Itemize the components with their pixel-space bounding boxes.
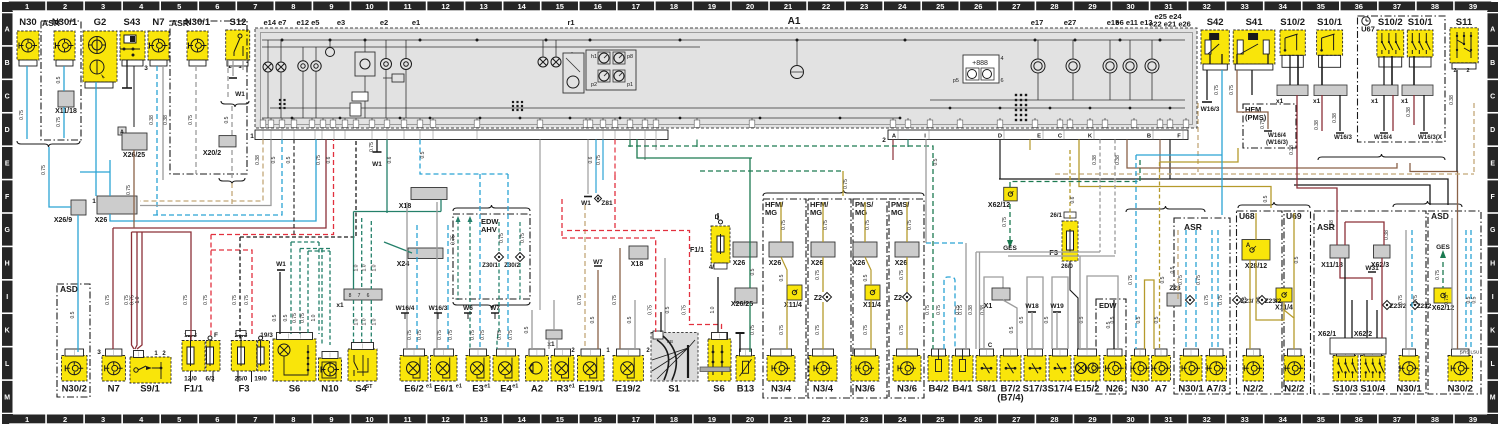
svg-text:MG: MG xyxy=(810,208,822,217)
svg-text:5: 5 xyxy=(177,2,181,11)
svg-text:X20/2: X20/2 xyxy=(203,150,221,157)
svg-text:0.75: 0.75 xyxy=(437,330,443,340)
svg-text:X11/18: X11/18 xyxy=(55,108,77,115)
svg-text:36: 36 xyxy=(1355,415,1363,424)
svg-text:0.75: 0.75 xyxy=(369,142,375,152)
svg-text:W16/4: W16/4 xyxy=(1268,132,1286,139)
svg-text:0.5: 0.5 xyxy=(524,326,530,333)
svg-text:e2: e2 xyxy=(380,18,388,27)
svg-text:1: 1 xyxy=(25,415,29,424)
svg-text:Z2: Z2 xyxy=(894,295,902,302)
svg-text:I: I xyxy=(6,294,8,301)
svg-text:10: 10 xyxy=(365,2,373,11)
svg-text:23: 23 xyxy=(860,2,868,11)
svg-text:S10/2: S10/2 xyxy=(1280,17,1305,28)
svg-text:0.75: 0.75 xyxy=(1214,85,1220,95)
svg-text:Z30/2: Z30/2 xyxy=(504,262,520,269)
svg-text:6: 6 xyxy=(215,415,219,424)
svg-text:0.5: 0.5 xyxy=(283,314,289,321)
svg-text:3: 3 xyxy=(144,65,148,72)
svg-text:18: 18 xyxy=(670,415,678,424)
svg-text:16: 16 xyxy=(594,2,602,11)
svg-text:B: B xyxy=(5,60,10,67)
svg-text:F: F xyxy=(5,194,10,201)
svg-text:15: 15 xyxy=(556,415,564,424)
svg-text:39: 39 xyxy=(1469,2,1477,11)
svg-text:C: C xyxy=(988,343,993,349)
svg-text:29: 29 xyxy=(1088,415,1096,424)
svg-text:K: K xyxy=(5,327,10,334)
svg-text:F: F xyxy=(214,332,218,339)
svg-text:0.6: 0.6 xyxy=(1070,196,1076,203)
svg-text:0.75: 0.75 xyxy=(451,235,457,245)
svg-text:7: 7 xyxy=(253,2,257,11)
svg-text:M: M xyxy=(1490,394,1496,401)
svg-text:0.75: 0.75 xyxy=(899,325,905,335)
svg-text:1.0: 1.0 xyxy=(135,296,141,303)
svg-text:1.0: 1.0 xyxy=(371,318,377,325)
svg-text:0.75: 0.75 xyxy=(300,313,306,323)
svg-text:0.6: 0.6 xyxy=(387,156,393,163)
svg-text:21: 21 xyxy=(784,415,792,424)
svg-text:29: 29 xyxy=(1088,2,1096,11)
svg-text:S6: S6 xyxy=(713,384,725,395)
svg-text:Z23: Z23 xyxy=(1169,285,1181,292)
svg-text:R3: R3 xyxy=(556,384,568,395)
svg-text:N2/2: N2/2 xyxy=(1243,384,1263,395)
svg-text:e1: e1 xyxy=(484,384,490,390)
svg-text:W16/3: W16/3 xyxy=(429,305,448,312)
svg-text:1.0: 1.0 xyxy=(710,306,716,313)
svg-text:12: 12 xyxy=(441,415,449,424)
svg-text:34: 34 xyxy=(1279,2,1288,11)
svg-text:0.5: 0.5 xyxy=(627,316,633,323)
svg-text:2: 2 xyxy=(1453,68,1456,74)
svg-text:X18: X18 xyxy=(631,261,644,268)
svg-text:MG: MG xyxy=(891,208,903,217)
svg-text:N30/1: N30/1 xyxy=(1396,384,1422,395)
svg-text:ASR: ASR xyxy=(1184,222,1202,232)
svg-text:G: G xyxy=(4,227,10,234)
svg-text:2: 2 xyxy=(882,137,886,144)
svg-text:A2: A2 xyxy=(531,384,543,395)
svg-text:S17/3: S17/3 xyxy=(1023,384,1048,395)
svg-text:0.75: 0.75 xyxy=(1260,119,1266,129)
svg-text:S12: S12 xyxy=(230,17,247,28)
svg-text:0.75: 0.75 xyxy=(863,325,869,335)
svg-text:32: 32 xyxy=(1202,2,1210,11)
svg-text:W16/4: W16/4 xyxy=(1374,134,1392,141)
svg-text:(B7/4): (B7/4) xyxy=(997,393,1023,404)
svg-text:25: 25 xyxy=(936,2,944,11)
svg-text:W1: W1 xyxy=(581,200,591,207)
svg-text:W16/3: W16/3 xyxy=(1334,134,1352,141)
svg-text:0.75: 0.75 xyxy=(682,305,688,315)
svg-text:MG: MG xyxy=(765,208,777,217)
svg-text:0.75: 0.75 xyxy=(1204,295,1210,305)
svg-text:r1: r1 xyxy=(567,18,574,27)
svg-text:B: B xyxy=(1490,60,1495,67)
svg-text:F: F xyxy=(1491,194,1496,201)
svg-text:1: 1 xyxy=(92,198,96,205)
svg-text:0.75: 0.75 xyxy=(1002,217,1008,227)
svg-text:X26: X26 xyxy=(895,260,908,267)
svg-text:0.5: 0.5 xyxy=(420,151,426,158)
svg-text:N26: N26 xyxy=(1106,384,1123,395)
svg-text:U67: U67 xyxy=(1361,25,1375,34)
svg-text:EDW: EDW xyxy=(1099,301,1117,310)
svg-text:S43: S43 xyxy=(124,17,141,28)
svg-text:h1: h1 xyxy=(591,54,597,60)
svg-text:A1: A1 xyxy=(788,16,801,27)
svg-text:30: 30 xyxy=(1126,415,1134,424)
svg-text:K: K xyxy=(1490,327,1495,334)
svg-text:0.5: 0.5 xyxy=(1160,276,1166,283)
svg-text:25/0: 25/0 xyxy=(235,376,248,383)
svg-text:0.38: 0.38 xyxy=(1092,155,1098,165)
svg-text:13: 13 xyxy=(479,415,487,424)
svg-text:21: 21 xyxy=(784,2,792,11)
svg-text:20: 20 xyxy=(746,415,754,424)
svg-text:e1: e1 xyxy=(512,384,518,390)
svg-text:e17: e17 xyxy=(1031,18,1044,27)
svg-text:e6 e11 e13: e6 e11 e13 xyxy=(1115,18,1152,27)
svg-text:0.38: 0.38 xyxy=(968,305,974,315)
svg-text:M: M xyxy=(4,394,10,401)
svg-text:S8/1: S8/1 xyxy=(977,384,997,395)
svg-text:N3/4: N3/4 xyxy=(771,384,792,395)
svg-text:N7: N7 xyxy=(152,17,164,28)
svg-text:ASR: ASR xyxy=(42,18,60,28)
svg-text:23: 23 xyxy=(860,415,868,424)
svg-text:e1: e1 xyxy=(456,384,462,390)
svg-text:0.75: 0.75 xyxy=(1413,295,1419,305)
svg-text:31: 31 xyxy=(1164,415,1172,424)
svg-text:B: B xyxy=(1147,134,1151,140)
svg-text:L: L xyxy=(5,361,10,368)
svg-text:H: H xyxy=(1490,261,1495,268)
svg-text:N30/2: N30/2 xyxy=(62,384,87,395)
svg-text:0.75: 0.75 xyxy=(56,117,62,127)
svg-text:E19/1: E19/1 xyxy=(578,384,604,395)
svg-text:0.5: 0.5 xyxy=(286,156,292,163)
svg-text:E4: E4 xyxy=(500,384,512,395)
svg-text:0.5: 0.5 xyxy=(1170,266,1176,273)
svg-text:19: 19 xyxy=(708,2,716,11)
svg-text:0.75: 0.75 xyxy=(925,305,931,315)
svg-text:39: 39 xyxy=(1469,415,1477,424)
svg-text:38: 38 xyxy=(1431,415,1439,424)
svg-text:0.75: 0.75 xyxy=(1435,270,1441,280)
svg-text:1.0: 1.0 xyxy=(311,314,317,321)
svg-text:0.75: 0.75 xyxy=(1218,295,1224,305)
svg-text:W7: W7 xyxy=(490,305,500,312)
svg-text:+888: +888 xyxy=(972,60,988,67)
svg-text:31: 31 xyxy=(1164,2,1172,11)
svg-text:W1: W1 xyxy=(235,91,245,98)
svg-text:0.5: 0.5 xyxy=(272,314,278,321)
svg-text:S11: S11 xyxy=(1456,17,1473,28)
svg-text:9: 9 xyxy=(329,2,333,11)
svg-text:X62/12: X62/12 xyxy=(1432,305,1454,312)
svg-text:S1: S1 xyxy=(668,384,680,395)
svg-text:L: L xyxy=(1491,361,1496,368)
svg-text:S10/1: S10/1 xyxy=(1408,17,1434,28)
svg-text:W19: W19 xyxy=(1050,303,1064,310)
svg-text:0.5: 0.5 xyxy=(1242,296,1248,303)
svg-text:A: A xyxy=(5,27,10,34)
svg-text:0.5: 0.5 xyxy=(1136,316,1142,323)
svg-text:S41: S41 xyxy=(1246,17,1264,28)
svg-text:B13: B13 xyxy=(737,384,754,395)
svg-text:0.38: 0.38 xyxy=(255,155,261,165)
svg-text:38: 38 xyxy=(1431,2,1439,11)
svg-text:F: F xyxy=(1177,134,1181,140)
svg-text:6: 6 xyxy=(1000,78,1003,84)
svg-text:E: E xyxy=(1037,134,1041,140)
svg-text:3: 3 xyxy=(97,349,101,356)
svg-text:e22 e21 e26: e22 e21 e26 xyxy=(1149,20,1191,29)
svg-text:0.75: 0.75 xyxy=(899,270,905,280)
svg-text:E6/1: E6/1 xyxy=(434,384,454,395)
svg-text:0.75: 0.75 xyxy=(183,295,189,305)
svg-text:3: 3 xyxy=(101,415,105,424)
svg-text:0.5: 0.5 xyxy=(56,76,62,83)
svg-text:X62/1: X62/1 xyxy=(1318,331,1336,338)
svg-text:7: 7 xyxy=(253,415,257,424)
svg-text:26: 26 xyxy=(974,415,982,424)
svg-text:15: 15 xyxy=(556,2,564,11)
svg-text:17: 17 xyxy=(632,2,640,11)
svg-text:1: 1 xyxy=(25,2,29,11)
svg-text:W16/3: W16/3 xyxy=(1201,106,1220,113)
svg-text:W1: W1 xyxy=(372,161,382,168)
svg-text:B4/1: B4/1 xyxy=(952,384,973,395)
svg-text:27: 27 xyxy=(1012,2,1020,11)
svg-text:0.5: 0.5 xyxy=(779,274,785,281)
svg-text:0.38: 0.38 xyxy=(1449,95,1455,105)
svg-text:0.75: 0.75 xyxy=(781,220,787,230)
svg-text:W6: W6 xyxy=(463,305,473,312)
svg-text:X26/9: X26/9 xyxy=(54,217,72,224)
svg-text:36: 36 xyxy=(1355,2,1363,11)
svg-text:1.0: 1.0 xyxy=(354,318,360,325)
svg-text:27: 27 xyxy=(1012,415,1020,424)
svg-text:0.75: 0.75 xyxy=(1398,295,1404,305)
svg-text:0.5: 0.5 xyxy=(933,158,939,165)
svg-text:0.75: 0.75 xyxy=(1178,275,1184,285)
svg-text:Z2: Z2 xyxy=(814,295,822,302)
svg-text:N30/1: N30/1 xyxy=(1178,384,1204,395)
svg-text:e1: e1 xyxy=(412,18,420,27)
svg-text:E6/2: E6/2 xyxy=(404,384,424,395)
svg-text:E: E xyxy=(1490,160,1495,167)
svg-text:0.75: 0.75 xyxy=(41,165,47,175)
svg-text:18: 18 xyxy=(670,2,678,11)
svg-text:0.75: 0.75 xyxy=(480,330,486,340)
svg-text:22: 22 xyxy=(822,415,830,424)
svg-text:0.5: 0.5 xyxy=(1256,296,1262,303)
svg-text:33: 33 xyxy=(1240,415,1248,424)
svg-text:E: E xyxy=(5,160,10,167)
svg-text:ASR: ASR xyxy=(171,18,189,28)
svg-text:0.75: 0.75 xyxy=(292,313,298,323)
svg-text:0.6: 0.6 xyxy=(326,156,332,163)
svg-text:8: 8 xyxy=(291,2,295,11)
svg-text:1.0: 1.0 xyxy=(371,264,377,271)
svg-text:26/0: 26/0 xyxy=(1061,264,1073,270)
svg-text:X26: X26 xyxy=(733,260,746,267)
svg-text:N3/6: N3/6 xyxy=(897,384,917,395)
svg-text:e1: e1 xyxy=(569,384,575,390)
svg-text:2: 2 xyxy=(63,415,67,424)
svg-text:0.75: 0.75 xyxy=(417,330,423,340)
svg-text:0.75: 0.75 xyxy=(232,295,238,305)
svg-text:37: 37 xyxy=(1393,415,1401,424)
svg-text:0.75: 0.75 xyxy=(1444,295,1450,305)
svg-text:0.5: 0.5 xyxy=(863,274,869,281)
svg-text:e12 e5: e12 e5 xyxy=(297,18,320,27)
svg-text:W16/4: W16/4 xyxy=(396,305,415,312)
svg-text:28: 28 xyxy=(1050,2,1058,11)
svg-text:0.5: 0.5 xyxy=(224,116,230,123)
svg-text:0.5: 0.5 xyxy=(1044,316,1050,323)
svg-text:6: 6 xyxy=(215,2,219,11)
svg-text:Z81: Z81 xyxy=(601,200,613,207)
svg-text:35: 35 xyxy=(1317,415,1325,424)
svg-text:0.75: 0.75 xyxy=(907,220,913,230)
svg-text:0.75: 0.75 xyxy=(577,295,583,305)
svg-text:H: H xyxy=(5,261,10,268)
svg-text:1: 1 xyxy=(250,133,254,140)
svg-text:p5: p5 xyxy=(953,78,959,84)
svg-text:0.5: 0.5 xyxy=(665,306,671,313)
svg-text:0.75: 0.75 xyxy=(815,270,821,280)
svg-text:p1: p1 xyxy=(627,82,633,88)
svg-text:S10/2: S10/2 xyxy=(1378,17,1403,28)
svg-text:0.75: 0.75 xyxy=(936,305,942,315)
svg-text:F3: F3 xyxy=(238,384,249,395)
svg-text:24: 24 xyxy=(898,415,907,424)
svg-text:22: 22 xyxy=(822,2,830,11)
svg-text:33: 33 xyxy=(1240,2,1248,11)
svg-text:D: D xyxy=(5,127,10,134)
svg-text:0.75: 0.75 xyxy=(815,325,821,335)
svg-text:W1: W1 xyxy=(276,261,286,268)
svg-text:0.75: 0.75 xyxy=(520,233,526,243)
svg-text:0.75: 0.75 xyxy=(750,325,756,335)
svg-text:X11/4: X11/4 xyxy=(863,302,881,309)
svg-text:0.5: 0.5 xyxy=(271,156,277,163)
svg-text:G2: G2 xyxy=(94,17,107,28)
svg-text:6: 6 xyxy=(367,293,370,299)
svg-text:GES: GES xyxy=(1436,244,1450,251)
svg-text:2: 2 xyxy=(63,2,67,11)
svg-text:Z30/1: Z30/1 xyxy=(482,262,498,269)
svg-text:0.75: 0.75 xyxy=(1229,85,1235,95)
svg-text:13: 13 xyxy=(479,2,487,11)
svg-text:0.5: 0.5 xyxy=(1472,296,1478,303)
svg-text:0.75: 0.75 xyxy=(126,185,132,195)
svg-text:D: D xyxy=(715,214,720,221)
svg-text:19: 19 xyxy=(708,415,716,424)
svg-text:0.75: 0.75 xyxy=(843,179,849,189)
svg-text:0.75: 0.75 xyxy=(779,325,785,335)
svg-text:C: C xyxy=(5,94,10,101)
svg-text:A: A xyxy=(1246,243,1251,249)
svg-text:0.5: 0.5 xyxy=(750,268,756,275)
svg-text:SRS LSU: SRS LSU xyxy=(1460,350,1479,355)
svg-text:0.38: 0.38 xyxy=(1329,220,1335,230)
svg-text:AHV: AHV xyxy=(481,225,497,234)
svg-text:0.75: 0.75 xyxy=(1196,275,1202,285)
svg-text:E3: E3 xyxy=(472,384,484,395)
svg-text:0.75: 0.75 xyxy=(823,220,829,230)
svg-text:p2: p2 xyxy=(591,82,597,88)
svg-text:0.38: 0.38 xyxy=(1384,230,1390,240)
svg-text:14: 14 xyxy=(518,415,527,424)
svg-text:11: 11 xyxy=(404,415,412,424)
svg-text:E19/2: E19/2 xyxy=(616,384,641,395)
svg-text:A: A xyxy=(1490,27,1495,34)
svg-text:F1/1: F1/1 xyxy=(184,384,204,395)
svg-text:24: 24 xyxy=(898,2,907,11)
svg-text:0.6: 0.6 xyxy=(588,156,594,163)
svg-text:0.75: 0.75 xyxy=(244,295,250,305)
svg-text:28: 28 xyxy=(1050,415,1058,424)
svg-text:25: 25 xyxy=(936,415,944,424)
svg-text:37: 37 xyxy=(1393,2,1401,11)
svg-text:1.0: 1.0 xyxy=(362,318,368,325)
svg-text:20: 20 xyxy=(746,2,754,11)
svg-text:0.75: 0.75 xyxy=(648,305,654,315)
svg-text:16: 16 xyxy=(594,415,602,424)
svg-text:11: 11 xyxy=(404,2,412,11)
svg-text:x1: x1 xyxy=(1313,98,1321,105)
svg-text:17: 17 xyxy=(632,415,640,424)
svg-text:0.38: 0.38 xyxy=(1314,120,1320,130)
svg-text:Z23/2: Z23/2 xyxy=(1265,298,1282,305)
svg-text:x1: x1 xyxy=(336,302,344,309)
svg-text:9: 9 xyxy=(329,415,333,424)
svg-text:G: G xyxy=(1490,227,1496,234)
svg-text:0.75: 0.75 xyxy=(188,115,194,125)
svg-text:X26: X26 xyxy=(811,260,824,267)
svg-text:0.75: 0.75 xyxy=(596,155,602,165)
svg-text:32: 32 xyxy=(1202,415,1210,424)
svg-text:W16/3(X: W16/3(X xyxy=(1418,134,1443,141)
svg-text:x1: x1 xyxy=(1371,98,1379,105)
svg-text:0.5: 0.5 xyxy=(1294,256,1300,263)
svg-text:W31: W31 xyxy=(1365,265,1379,272)
svg-text:(W16/3): (W16/3) xyxy=(1266,139,1288,146)
svg-text:0.75: 0.75 xyxy=(497,330,503,340)
svg-text:0.75: 0.75 xyxy=(508,330,514,340)
svg-text:34: 34 xyxy=(1279,415,1288,424)
svg-text:0.38: 0.38 xyxy=(163,115,169,125)
svg-text:0.38: 0.38 xyxy=(1406,107,1412,117)
svg-text:0.75: 0.75 xyxy=(470,330,476,340)
svg-text:0.75: 0.75 xyxy=(316,155,322,165)
svg-text:0.75: 0.75 xyxy=(958,305,964,315)
svg-text:S9/1: S9/1 xyxy=(140,384,160,395)
svg-text:0.38: 0.38 xyxy=(1332,113,1338,123)
svg-text:7: 7 xyxy=(358,293,361,299)
svg-text:KB: KB xyxy=(667,339,673,344)
svg-text:S10/4: S10/4 xyxy=(1360,384,1386,395)
svg-text:8: 8 xyxy=(291,415,295,424)
svg-text:X62/12: X62/12 xyxy=(988,202,1010,209)
